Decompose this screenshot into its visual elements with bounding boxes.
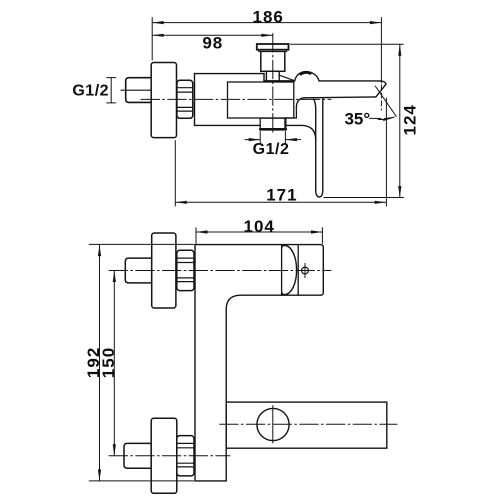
extension 104 left <box>195 228 197 244</box>
arrow 150 bottom <box>113 444 116 456</box>
svg-text:124: 124 <box>400 104 419 135</box>
arrow 186 left <box>152 21 164 24</box>
svg-text:98: 98 <box>202 34 223 53</box>
upper wall nipple (bottom view) <box>125 258 151 283</box>
35 degree arc <box>378 117 395 120</box>
arrow G1/2 right <box>285 138 297 141</box>
dim 104 line <box>196 231 323 233</box>
arrow 124 top <box>398 44 401 56</box>
arrow 104 left <box>196 230 208 233</box>
lower wall flange (bottom view) <box>151 418 177 493</box>
wall flange (top view) <box>151 63 176 138</box>
handle end-on arc (bottom view) <box>285 246 297 295</box>
arrow G1/2 left <box>249 138 261 141</box>
arrow 192 bottom <box>98 469 101 481</box>
body L-profile (bottom view) <box>195 245 323 481</box>
dim 186 line <box>152 22 381 24</box>
spout drop bar (top view) <box>314 98 323 197</box>
handle screw hole (bottom view) <box>302 267 309 274</box>
extension 104 right <box>321 228 323 244</box>
svg-text:G1/2: G1/2 <box>72 83 109 100</box>
spout tube (bottom view) <box>226 402 387 448</box>
svg-text:35°: 35° <box>344 110 370 129</box>
extension 192 bottom <box>89 480 193 482</box>
extension line 171 right <box>385 98 387 206</box>
lower locknut (bottom view) <box>177 436 194 476</box>
arrow 171 right <box>375 201 387 204</box>
G1/2 outlet extension lines <box>259 132 261 144</box>
35 degree reference line <box>375 86 396 116</box>
dim 150 line <box>113 271 115 456</box>
extension line 124 bottom <box>324 197 404 199</box>
handle taper line (top view) <box>279 75 293 80</box>
extension line 124 top <box>291 43 404 45</box>
diverter knob lip <box>259 50 287 52</box>
arrow 104 right <box>311 230 323 233</box>
lower union centerline (bottom view) <box>109 455 230 457</box>
arrow 35 arc <box>383 117 395 122</box>
dim 98 line <box>152 34 273 36</box>
arrow 192 top <box>98 245 101 257</box>
cartridge vertical centerline (top view) <box>272 34 274 135</box>
faucet body (top view) <box>195 74 316 140</box>
arrow 98 right <box>261 34 273 37</box>
wall nipple G1/2 (top view) <box>121 78 152 103</box>
dome shade crescent <box>301 72 310 74</box>
extension line spout tip <box>380 18 382 84</box>
diverter knob stem <box>266 71 279 81</box>
upper union centerline (bottom view) <box>109 270 331 272</box>
extension 192 top <box>89 243 193 245</box>
handle lever (top view) <box>304 81 386 98</box>
G1/2 outlet arrow tails <box>245 139 260 141</box>
lower wall nipple (bottom view) <box>124 443 151 468</box>
35 degree leader <box>370 117 382 119</box>
arrow 150 top <box>113 271 116 283</box>
aerator outlet circle (bottom view) <box>257 408 289 440</box>
diverter knob body <box>261 51 285 71</box>
arrow 171 left <box>175 201 187 204</box>
svg-text:G1/2: G1/2 <box>253 141 290 158</box>
diverter knob cap (top view) <box>257 44 289 50</box>
svg-text:150: 150 <box>99 347 118 378</box>
svg-text:171: 171 <box>266 185 297 204</box>
main axis centerline (top view) <box>141 98 331 100</box>
dim 124 line <box>399 44 401 197</box>
handle pivot dome (top view) <box>295 72 319 81</box>
extension line 171 left <box>174 141 176 207</box>
spout centerline (bottom view) <box>220 423 397 425</box>
svg-text:104: 104 <box>244 217 275 236</box>
spout shoulder step (top view) <box>286 98 305 118</box>
knurled locknut (top view) <box>177 80 193 118</box>
body inner section rectangle (top view) <box>228 82 294 118</box>
outlet nipple G1/2 (top view, below body) <box>260 118 286 129</box>
arrow 98 left <box>152 34 164 37</box>
upper locknut (bottom view) <box>177 250 194 290</box>
G1/2 bracket (left) <box>107 78 116 103</box>
extension line left (wall plane) <box>151 18 153 61</box>
arrow 124 bottom <box>398 186 401 198</box>
cartridge housing lines (bottom view) <box>281 245 283 296</box>
arrow 186 right <box>370 21 382 24</box>
dim 171 line <box>175 201 386 203</box>
dim 192 line <box>99 245 101 481</box>
svg-text:186: 186 <box>253 7 284 26</box>
upper wall flange (bottom view) <box>152 233 176 308</box>
